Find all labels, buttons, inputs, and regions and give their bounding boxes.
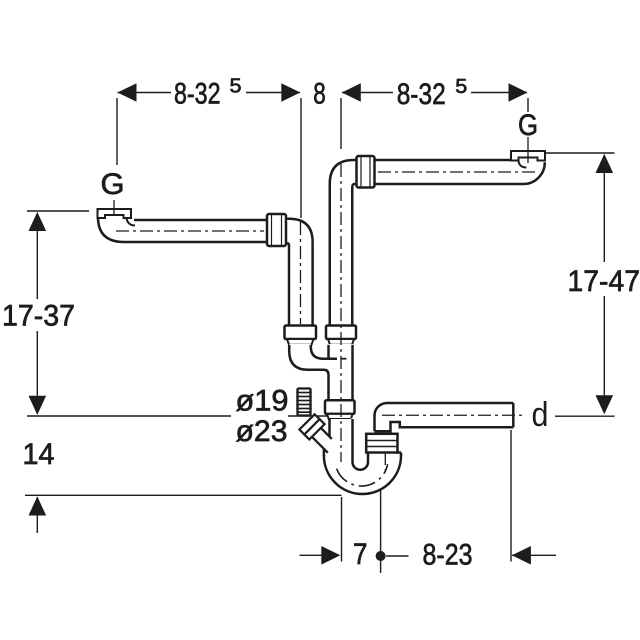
svg-text:ø19: ø19 [236, 385, 289, 418]
svg-text:17-47: 17-47 [568, 265, 640, 298]
svg-text:5: 5 [230, 76, 242, 98]
svg-text:8: 8 [313, 78, 326, 111]
svg-text:8-32: 8-32 [174, 78, 221, 111]
svg-text:14: 14 [23, 438, 55, 471]
svg-text:5: 5 [455, 76, 467, 98]
svg-text:17-37: 17-37 [2, 300, 75, 333]
svg-text:7: 7 [353, 538, 368, 571]
svg-text:ø23: ø23 [236, 415, 288, 448]
svg-text:G: G [518, 109, 538, 142]
svg-text:8-23: 8-23 [423, 539, 473, 572]
svg-text:d: d [532, 396, 549, 434]
svg-text:G: G [101, 168, 125, 201]
svg-text:8-32: 8-32 [397, 78, 446, 111]
